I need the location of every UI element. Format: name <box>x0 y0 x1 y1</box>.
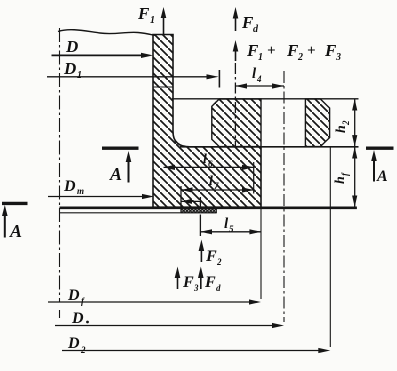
flange bottom thick line <box>60 207 357 210</box>
label h2 (rotated) <box>334 120 351 133</box>
label hf (rotated) <box>333 172 350 184</box>
svg-text:4: 4 <box>256 74 262 84</box>
ring top surface line <box>172 98 359 100</box>
section mark A (right) <box>366 148 394 181</box>
force Fd arrow (bottom) <box>198 267 204 290</box>
svg-text:D: D <box>63 178 76 195</box>
svg-text:3: 3 <box>335 52 341 63</box>
dimension Dm line <box>48 194 154 199</box>
loose ring left block <box>212 99 261 147</box>
dimension hf (vertical) <box>352 147 357 207</box>
section mark A (mid-left) <box>102 148 139 182</box>
dimension Df line <box>48 299 261 304</box>
svg-text:d: d <box>216 283 221 293</box>
svg-text:A: A <box>9 221 22 241</box>
gasket lower line <box>60 212 217 214</box>
svg-text:2: 2 <box>341 120 351 126</box>
svg-text:D: D <box>67 335 80 352</box>
svg-text:h: h <box>334 125 349 133</box>
force F2 arrow <box>199 240 205 263</box>
svg-text:D: D <box>67 287 80 304</box>
force F1+F2+F3 arrow <box>233 40 239 61</box>
svg-text:2: 2 <box>297 52 303 63</box>
in-plate dimension l6 <box>164 165 254 170</box>
force F1 arrow <box>161 7 167 34</box>
F3 action line in plate <box>180 186 182 213</box>
svg-text:+: + <box>267 43 276 59</box>
pipe weld seam line <box>153 86 173 88</box>
svg-text:3: 3 <box>193 283 199 293</box>
in-plate dimension l7 <box>181 187 254 192</box>
svg-text:D: D <box>71 310 84 327</box>
svg-text:D: D <box>65 37 78 56</box>
pipe + hub + flange plate (integral piece, hatched section) <box>153 35 261 208</box>
dimension Db line <box>55 323 284 328</box>
svg-text:h: h <box>333 176 348 184</box>
ring outer edge extension to D2 <box>329 147 331 347</box>
force F3 arrow <box>175 267 181 290</box>
section mark A (bottom-left) <box>2 203 28 237</box>
small dimension arrow at plate bottom <box>181 199 200 204</box>
svg-text:l: l <box>203 152 207 167</box>
flange outer edge extension to Df <box>260 207 262 299</box>
gasket (cross hatched) <box>181 208 217 213</box>
svg-text:F: F <box>182 274 194 291</box>
force Fd arrow (top) <box>233 7 239 31</box>
dimension h2 (vertical) <box>352 99 357 147</box>
svg-text:F: F <box>205 248 217 265</box>
svg-text:F: F <box>204 274 216 291</box>
svg-text:m: m <box>77 186 84 196</box>
svg-text:2: 2 <box>216 257 222 267</box>
svg-text:2: 2 <box>80 345 86 355</box>
bolt centerline <box>283 71 285 322</box>
svg-text:A: A <box>109 164 122 184</box>
svg-text:D: D <box>63 59 76 78</box>
dimension D2 line <box>62 348 330 353</box>
label F1+F2+F3 <box>246 41 341 63</box>
svg-text:1: 1 <box>77 70 82 81</box>
svg-text:7: 7 <box>214 181 219 191</box>
svg-text:A: A <box>376 168 388 185</box>
vessel centerline <box>59 28 61 318</box>
dimension D1 line <box>47 74 219 79</box>
Fd action tick under plate <box>199 197 201 208</box>
svg-text:5: 5 <box>229 224 234 234</box>
dimension D line <box>52 53 154 58</box>
svg-text:+: + <box>307 43 316 59</box>
svg-text:l: l <box>209 174 213 189</box>
ring bottom / flange top interface line <box>180 146 359 148</box>
bolt force action line F1+F2+F3 <box>234 63 236 147</box>
dimension l4 <box>235 83 284 88</box>
dimension l5 <box>200 229 261 234</box>
svg-text:F: F <box>137 4 150 23</box>
l5 left extension line <box>199 215 201 237</box>
svg-text:6: 6 <box>208 159 213 169</box>
loose ring right block <box>305 99 329 147</box>
svg-text:1: 1 <box>258 52 263 63</box>
wavy shell break line <box>58 30 156 36</box>
svg-text:1: 1 <box>150 15 155 26</box>
extension tick at x=253.7 <box>253 162 255 194</box>
D1 tick on ring bore edge <box>218 70 220 88</box>
